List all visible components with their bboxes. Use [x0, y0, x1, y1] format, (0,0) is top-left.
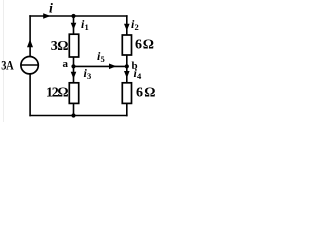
resistor 6 ohm bottom right — [122, 83, 131, 104]
svg-text:3Ω: 3Ω — [51, 39, 69, 54]
svg-text:6Ω: 6Ω — [135, 38, 155, 53]
arrow current i1 (down) — [71, 23, 77, 30]
wire branch1 lower (node a to 12-ohm) — [73, 66, 75, 83]
wire left vertical upper — [29, 15, 31, 56]
arrow current i3 (down) — [71, 72, 77, 79]
resistor 12 ohm — [69, 83, 78, 104]
wire left vertical lower — [29, 74, 31, 117]
arrow current i2 (down) — [124, 24, 130, 31]
arrow current i (top wire, right) — [43, 13, 50, 19]
wire middle horizontal (node a to node b) — [74, 65, 127, 67]
resistor 6 ohm top right — [122, 35, 131, 55]
wire bottom horizontal — [29, 115, 127, 117]
svg-text:a: a — [63, 58, 69, 70]
arrow current i4 (down) — [124, 71, 130, 78]
svg-text:6Ω: 6Ω — [136, 86, 157, 101]
wire top horizontal — [29, 15, 127, 17]
current source arrow up — [27, 39, 33, 47]
current source 3A circle — [21, 56, 38, 73]
wire right vertical mid (6-ohm to node b) — [126, 55, 128, 66]
wire branch1 middle (3-ohm to node a) — [73, 57, 75, 66]
wire right vertical bottom (6-ohm to bottom wire) — [126, 103, 128, 116]
wire right vertical lower (node b to 6-ohm bottom) — [126, 66, 128, 83]
svg-text:i: i — [49, 1, 53, 16]
wire branch1 top (junction to 3-ohm) — [73, 16, 75, 35]
resistor 3 ohm — [69, 34, 78, 57]
node b dot — [125, 64, 129, 68]
arrow current i5 (right) — [109, 64, 116, 70]
faint scan line at left edge — [3, 0, 5, 122]
svg-text:3A: 3A — [1, 60, 14, 73]
current source bar — [21, 64, 38, 66]
wire branch1 bottom (12-ohm to bottom wire) — [73, 103, 75, 115]
node a dot — [71, 64, 75, 68]
node junction dot top — [71, 14, 75, 18]
svg-text:12Ω: 12Ω — [46, 85, 68, 100]
wire right vertical top (corner to 6-ohm) — [126, 15, 128, 35]
svg-text:b: b — [132, 60, 138, 72]
node junction dot bottom — [71, 113, 75, 117]
